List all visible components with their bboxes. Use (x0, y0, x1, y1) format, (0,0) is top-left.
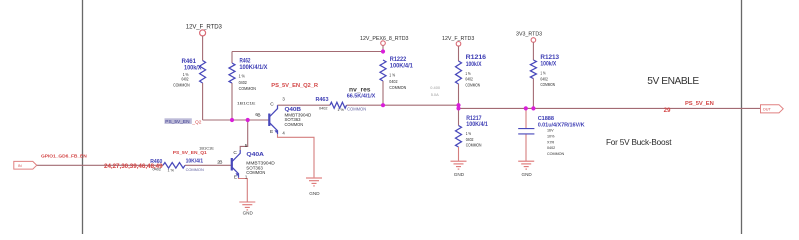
svg-text:0402: 0402 (465, 77, 473, 82)
svg-text:E: E (270, 129, 273, 135)
svg-text:COMMON: COMMON (186, 167, 204, 172)
svg-text:0402: 0402 (540, 76, 548, 81)
svg-text:R1213: R1213 (540, 54, 559, 61)
svg-text:PS_5V_EN: PS_5V_EN (685, 101, 714, 107)
svg-text:0402: 0402 (239, 80, 248, 85)
svg-text:COMMON: COMMON (389, 85, 406, 90)
ground under Q40B (306, 178, 322, 196)
svg-text:100K/4/1: 100K/4/1 (390, 64, 414, 70)
power 12V_F_RTD3 (right) (442, 36, 474, 61)
resistor R462 (229, 52, 267, 121)
svg-text:0402: 0402 (319, 106, 327, 110)
svg-text:100K/4/1/X: 100K/4/1/X (239, 65, 267, 71)
svg-text:GND: GND (454, 172, 465, 177)
svg-text:COMMON: COMMON (285, 122, 304, 127)
resistor R460 (150, 158, 204, 172)
junction node C1888 (524, 106, 528, 110)
svg-text:IN: IN (18, 164, 22, 168)
svg-text:C1888: C1888 (538, 116, 554, 122)
wire Q40B emitter to GND (278, 134, 315, 177)
svg-text:1 %: 1 % (540, 71, 545, 76)
svg-text:0402: 0402 (389, 79, 398, 84)
svg-text:R461: R461 (182, 58, 197, 65)
svg-text:B: B (219, 160, 222, 166)
svg-text:1 %: 1 % (168, 168, 175, 172)
svg-text:100k/X: 100k/X (184, 65, 202, 71)
svg-text:X7R: X7R (547, 140, 555, 144)
svg-text:B: B (257, 112, 260, 118)
svg-text:GND: GND (309, 191, 320, 196)
transistor Q40A (217, 143, 275, 181)
svg-text:PS_5V_EN_Q2_R: PS_5V_EN_Q2_R (271, 83, 319, 89)
power 12V_PEX6_8_RTD3 (360, 36, 409, 51)
svg-text:16V: 16V (547, 129, 554, 133)
svg-text:COMMON: COMMON (540, 82, 555, 87)
frame left edge (82, 0, 84, 234)
wire node Q2 down to Q40A collector (240, 120, 248, 150)
ground under Q40A (239, 202, 255, 215)
svg-text:0402: 0402 (547, 146, 555, 150)
svg-text:COMMON: COMMON (173, 82, 190, 87)
resistor R1213 (530, 54, 559, 109)
port OUT (761, 105, 784, 113)
junction node R1217 lower (456, 106, 460, 110)
svg-text:24,27,30,39,46,48,49: 24,27,30,39,46,48,49 (104, 163, 163, 170)
svg-text:C: C (233, 150, 237, 156)
svg-text:10%: 10% (547, 134, 555, 138)
svg-text:E: E (234, 175, 237, 181)
resistor R1216 (456, 54, 487, 105)
svg-text:C: C (270, 101, 274, 107)
resistor R461 (173, 58, 206, 120)
svg-text:5.0A: 5.0A (431, 92, 439, 97)
svg-text:PS_5V_EN_Q1: PS_5V_EN_Q1 (173, 150, 207, 156)
wire top branch R462 to 12V_PEX6_8_RTD3 (232, 51, 383, 53)
svg-text:COMMON: COMMON (246, 170, 265, 175)
svg-text:0.400: 0.400 (430, 85, 441, 90)
svg-text:0402: 0402 (182, 77, 189, 82)
junction node R1222 / main wire (381, 103, 385, 107)
svg-text:R1217: R1217 (466, 115, 482, 122)
svg-text:GND: GND (522, 172, 533, 177)
svg-text:0402: 0402 (466, 137, 474, 142)
svg-text:1 %: 1 % (389, 73, 395, 78)
svg-text:OUT: OUT (763, 107, 772, 111)
power 12V_F_RTD3 (left) (186, 24, 223, 61)
svg-text:1 %: 1 % (466, 131, 471, 136)
svg-text:GND: GND (243, 210, 254, 215)
svg-text:For 5V Buck-Boost: For 5V Buck-Boost (606, 138, 672, 147)
wire node to OUT port (459, 107, 761, 109)
svg-text:66.5K/4/1/X: 66.5K/4/1/X (347, 94, 376, 100)
svg-text:1 %: 1 % (239, 73, 245, 78)
wire R460 to Q40A base (185, 164, 232, 166)
svg-text:12V_F_RTD3: 12V_F_RTD3 (442, 36, 474, 42)
junction node R1213 (531, 106, 535, 110)
svg-text:R1222: R1222 (390, 56, 407, 63)
svg-text:COMMON: COMMON (239, 86, 256, 91)
wire R463 to node R1216/R1217 (347, 104, 459, 106)
svg-text:COMMON: COMMON (347, 106, 366, 111)
junction node Q40A collector (246, 118, 250, 122)
svg-text:1 %: 1 % (465, 71, 470, 76)
net PS_5V_EN_Q2 highlighted label (165, 118, 202, 125)
svg-text:100K/4/1: 100K/4/1 (466, 122, 488, 128)
svg-text:29: 29 (664, 107, 671, 114)
resistor R1217 (456, 108, 489, 160)
wire PS_5V_EN_Q2 net: R461 to Q40B base (203, 119, 270, 121)
svg-text:GPIO1_GD6_FB_EN: GPIO1_GD6_FB_EN (41, 154, 87, 160)
svg-text:COMMON: COMMON (547, 152, 565, 156)
svg-text:1B1C1E: 1B1C1E (237, 101, 256, 105)
junction node at 12V_PEX6_8 branch (381, 49, 385, 53)
port IN (14, 161, 37, 169)
svg-text:1B1C1E: 1B1C1E (199, 146, 214, 150)
ground under C1888 (518, 161, 534, 177)
ground under R1217 (451, 161, 467, 177)
svg-text:3V3_RTD3: 3V3_RTD3 (516, 31, 542, 37)
wire Q40A emitter to GND (239, 178, 248, 202)
svg-text:R463: R463 (316, 97, 329, 103)
svg-text:5V ENABLE: 5V ENABLE (647, 76, 699, 87)
svg-text:nv_res: nv_res (349, 87, 371, 93)
wire collector Q40B to R463 (278, 104, 331, 106)
svg-text:PS_5V_EN: PS_5V_EN (165, 119, 190, 125)
resistor R1222 (380, 56, 413, 105)
svg-text:R1216: R1216 (466, 54, 487, 61)
resistor R463 (nv_res) (316, 87, 376, 112)
junction node R462 / PS_5V_EN_Q2 (230, 118, 234, 122)
svg-text:_Q2: _Q2 (191, 120, 201, 126)
svg-text:10K/4/1: 10K/4/1 (186, 158, 204, 164)
svg-text:1 %: 1 % (337, 108, 344, 112)
svg-text:R462: R462 (240, 58, 251, 65)
svg-text:12V_F_RTD3: 12V_F_RTD3 (186, 24, 223, 31)
transistor Q40B (255, 96, 311, 135)
svg-text:Q40A: Q40A (246, 152, 264, 158)
svg-text:100k/X: 100k/X (466, 62, 482, 68)
wire IN port to R460 (37, 164, 163, 166)
svg-text:COMMON: COMMON (466, 143, 482, 148)
svg-text:100k/X: 100k/X (540, 62, 556, 68)
capacitor C1888 (518, 108, 584, 160)
frame right edge (741, 0, 743, 234)
svg-text:0.01u/4/X7R/16V/K: 0.01u/4/X7R/16V/K (538, 122, 585, 128)
svg-text:COMMON: COMMON (465, 82, 480, 87)
junction node R1216 upper (456, 103, 460, 107)
power 3V3_RTD3 (516, 31, 542, 60)
wire vertical step at node R1216/R1217 (458, 105, 460, 108)
